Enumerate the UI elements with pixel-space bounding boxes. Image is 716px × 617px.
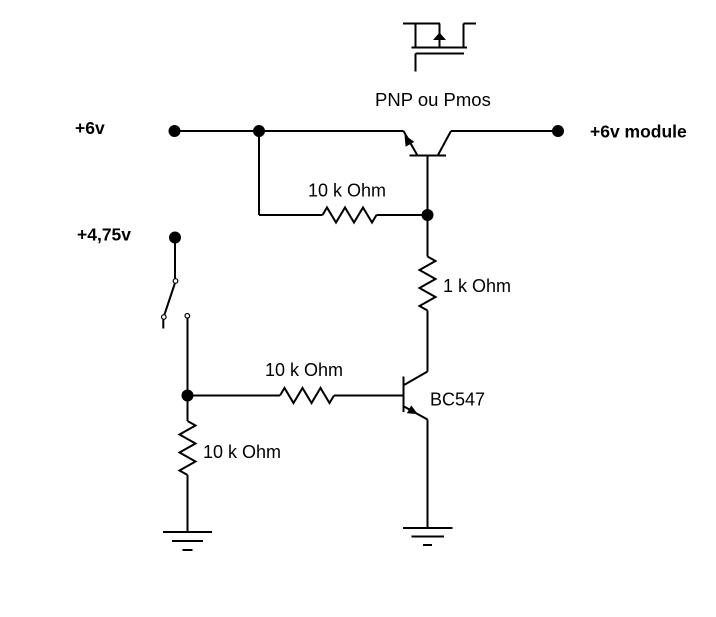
node rail junction dot: [253, 125, 265, 137]
svg-text:+6v module: +6v module: [590, 122, 687, 142]
svg-text:PNP ou Pmos: PNP ou Pmos: [375, 89, 491, 110]
wire switch pole from +4,75v: [174, 243, 176, 279]
transistor U1 PMOS source vertical: [415, 24, 417, 48]
ground symbol left: [163, 532, 212, 550]
resistor R3 10 k Ohm zigzag: [280, 388, 334, 403]
transistor U1 PMOS gate lead: [415, 54, 417, 72]
resistor R1 10 k Ohm zigzag: [323, 208, 377, 223]
transistor U1 PMOS gate bar: [416, 53, 465, 55]
wire switch right contact down to node A: [187, 318, 189, 395]
node B junction dot: [422, 209, 434, 221]
wire node A to resistor R3: [188, 395, 281, 397]
transistor Q2 emitter diagonal: [404, 407, 428, 420]
transistor U1 PMOS arrow: [433, 33, 446, 41]
transistor U1 PMOS arrow stem: [439, 24, 441, 48]
wire +6v rail right: [451, 130, 558, 132]
node A junction dot: [182, 390, 194, 402]
switch SW1 left contact stub: [162, 320, 164, 329]
switch SW1 left throw contact circle: [162, 315, 167, 320]
transistor Q2 emitter arrow: [407, 405, 418, 414]
transistor U1 PMOS symbol top lead left: [403, 23, 440, 25]
svg-text:10 k Ohm: 10 k Ohm: [265, 360, 343, 380]
wire from node rail down: [258, 131, 260, 215]
wire Q1 stem to node B: [427, 156, 429, 216]
switch SW1 pole contact circle: [173, 279, 178, 284]
wire resistor R2 to Q2 collector: [427, 311, 429, 372]
svg-text:+4,75v: +4,75v: [77, 225, 131, 245]
switch SW1 arm: [165, 284, 175, 315]
svg-text:10 k Ohm: 10 k Ohm: [203, 442, 281, 462]
node +4,75v terminal dot: [169, 232, 181, 244]
svg-text:+6v: +6v: [75, 118, 105, 138]
svg-text:1 k Ohm: 1 k Ohm: [443, 276, 511, 296]
transistor Q1 collector diagonal: [438, 131, 451, 155]
ground symbol right: [403, 528, 453, 545]
resistor R2 1 k Ohm zigzag: [420, 257, 436, 311]
wire Q2 emitter to ground: [427, 420, 429, 528]
wire node B to resistor R2: [427, 215, 429, 257]
transistor Q2 base bar: [403, 377, 405, 413]
wire resistor R1 to node B: [377, 214, 428, 216]
wire node A down to resistor R4: [187, 396, 189, 422]
transistor Q2 collector diagonal: [404, 372, 428, 386]
resistor R4 10 k Ohm zigzag: [180, 421, 196, 475]
wire to resistor R1: [259, 214, 323, 216]
wire resistor R3 to Q2 base: [334, 395, 404, 397]
wire +6v rail left: [175, 130, 404, 132]
transistor Q1 base bar: [410, 155, 447, 157]
transistor U1 PMOS channel bar: [412, 47, 468, 49]
node +6v module terminal dot: [552, 125, 564, 137]
wire resistor R4 to ground: [187, 475, 189, 531]
node +6v left junction dot: [169, 125, 181, 137]
transistor U1 PMOS drain lead: [464, 24, 477, 48]
transistor Q1 emitter arrow: [405, 135, 415, 147]
switch SW1 right throw contact circle: [185, 314, 190, 319]
svg-text:10 k Ohm: 10 k Ohm: [308, 181, 386, 201]
transistor Q1 emitter diagonal: [404, 131, 418, 156]
svg-text:BC547: BC547: [430, 390, 485, 410]
